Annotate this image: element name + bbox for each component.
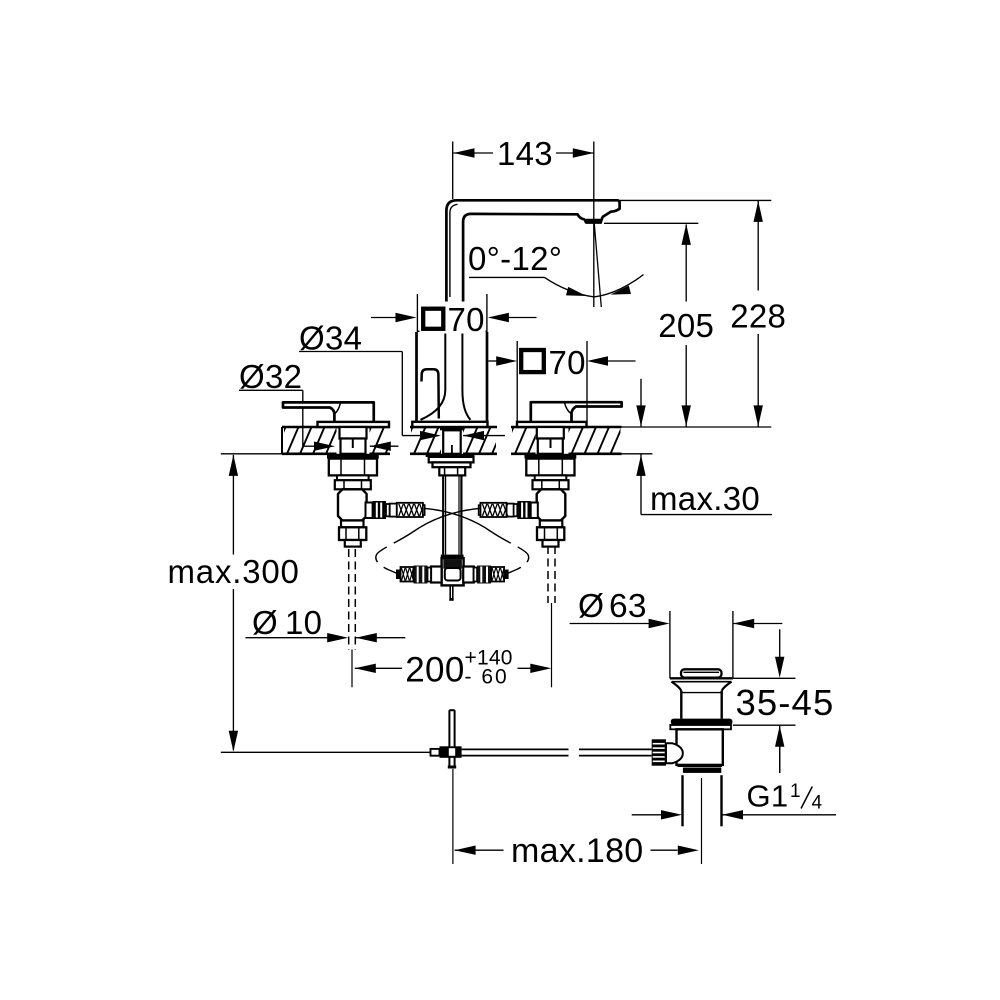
drain knob [681,669,722,677]
angle arc [545,275,644,297]
svg-text:205: 205 [658,307,714,344]
dimension 143 extension lines [452,142,454,200]
spout silhouette white fill [446,200,619,332]
angle reference line [469,276,545,278]
left hose dashed loop [493,533,529,575]
right valve body below deck [537,427,564,439]
counter deck bottom edge [282,452,337,455]
right handle lever outline [531,402,622,422]
svg-text:228: 228 [730,297,786,334]
right handle lever white fill [531,402,622,422]
svg-text:Ø34: Ø34 [299,320,362,357]
spout rear hook detail [422,369,439,418]
dimension square70 handle: extension lines [516,341,518,421]
angle arc arrowheads [566,287,587,296]
deck bottom extension line right (max.30) [622,453,653,455]
dimension max.300 [232,455,234,750]
spout shank flange ring in deck hole (dark) [440,427,464,430]
spout shank washer (dark) [426,454,475,457]
tee left connector chain [431,567,442,583]
faucet centerline below rod [452,769,454,864]
drain lower body [677,729,723,765]
spout underside contour [463,214,585,332]
spout outer contour [446,200,619,332]
drain knurled nut (dark) [652,739,666,765]
svg-text:max.30: max.30 [650,480,760,517]
deck top extension line to 205/228 dims [622,426,772,428]
left valve body below deck [340,427,367,439]
35-45 top extension line [733,677,796,679]
horizontal actuating rod [462,748,569,750]
drain O-ring (dark) [671,719,733,725]
leader line for Ø32 [239,389,303,391]
dimension square70 handle arrows [489,360,498,362]
svg-text:200: 200 [405,650,464,689]
dimension 228 top extension line [620,199,772,201]
drain Ø63 extension lines [669,611,671,678]
left handle escutcheon plate [318,422,390,427]
square70 handle label [521,344,586,378]
deck left end cap [281,427,283,454]
svg-text:max.300: max.300 [168,553,300,590]
dimension 205 [685,225,687,427]
svg-text:70: 70 [448,301,485,338]
dimension square70 top arrows [371,317,397,319]
pull rod bottom tip (dark) [448,766,456,769]
dimension square70 top: extension lines [416,294,418,332]
svg-text:143: 143 [497,135,553,172]
tee right connector chain [463,567,474,583]
svg-text:70: 70 [549,344,586,381]
left hose solid curve [424,508,493,532]
dimension 205 extension line [604,222,698,224]
thread label G1 1/4 [632,814,662,816]
spout shank through deck [443,430,461,454]
right handle lever front curve [565,403,571,414]
left valve threaded stud dashed lines (Ø10) [348,549,350,650]
dimension 228 [757,201,759,427]
dimension 200 +140/-60 [355,664,376,673]
left handle lever outline [283,402,374,422]
spout base inner flare lines [421,332,446,420]
Ø32 arrows [314,442,335,451]
drain funnel sides [672,682,682,691]
square70 top label [420,302,486,334]
Ø34 arrows [420,431,441,440]
spout escutcheon plate [412,422,487,427]
pull rod vertical [448,710,450,765]
deck bottom extension line left (max.300) [221,453,282,455]
svg-text:35-45: 35-45 [736,682,835,723]
left stud centerline extension [351,650,353,688]
spout shank flange step 1 [429,457,474,463]
drain upper body [680,691,682,719]
tee top cap (dark) [441,555,464,559]
svg-text:Ø: Ø [578,588,604,625]
drain flange [670,677,733,679]
svg-text:G1: G1 [747,779,789,814]
tee body [442,558,464,585]
spout shank nut [439,467,465,475]
spout supply pipe [442,475,444,554]
max.300 bottom extension line [221,751,431,753]
svg-text:4: 4 [812,793,823,814]
svg-text:Ø: Ø [252,604,278,641]
right hose dashed loop [376,533,412,575]
drain tailpipe (G1 1/4) [681,775,683,826]
35-45 bottom extension line [733,724,796,726]
leader line for Ø34 [299,351,402,353]
drain body bottom band [678,765,723,767]
counter deck top edge [282,426,390,429]
rod coupling sleeve [431,749,440,756]
svg-text:Ø32: Ø32 [239,358,302,395]
left handle lever front curve [335,403,341,414]
svg-text:1: 1 [790,781,801,802]
spout inner edge thin line [450,204,458,297]
tee bottom stub [449,585,451,598]
svg-text:- 60: - 60 [465,666,509,689]
dimension max.30 [640,379,642,427]
drain centerline [701,778,703,864]
svg-text:max.180: max.180 [511,832,644,870]
right handle escutcheon plate [517,422,587,427]
spout shank flange step 2 [433,462,471,467]
tilted stream line (12°) [594,224,601,307]
svg-text:10: 10 [285,604,322,641]
dimension 143 [454,152,494,154]
spout aerator (dark) [584,219,603,224]
left handle lever white fill [283,402,374,422]
drain rod nub [666,743,683,763]
rod clamp block (dark) [440,746,462,758]
svg-text:63: 63 [609,588,647,625]
dimension max.180 [455,846,476,855]
right hose solid curve [412,508,481,532]
spout base body [415,332,418,422]
svg-text:0°-12°: 0°-12° [468,240,562,277]
drain flange plate [670,725,731,729]
right valve threaded stud dashed lines [547,546,549,603]
right stud centerline extension [551,603,553,687]
